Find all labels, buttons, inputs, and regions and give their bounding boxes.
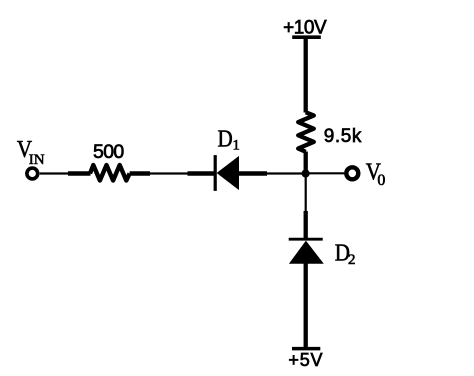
svg-text:IN: IN xyxy=(29,152,45,168)
resistor R2 9.5k zigzag xyxy=(298,112,314,152)
label V0 xyxy=(366,159,386,189)
svg-text:500: 500 xyxy=(93,141,124,163)
diode D1 cathode bar xyxy=(214,155,217,191)
wire Vin to R1 (thin) xyxy=(40,172,69,174)
svg-text:0: 0 xyxy=(377,172,385,189)
wire D1 to node (thin) xyxy=(267,172,306,174)
power rail +10V bar xyxy=(292,35,321,39)
wire R1 right lead (thick) xyxy=(130,171,150,175)
wire D1 left lead (thick) xyxy=(188,171,215,175)
label D1 xyxy=(218,126,240,153)
wire +10V to R2 (thick) xyxy=(304,37,308,113)
label D2 xyxy=(335,241,356,269)
diode D2 triangle xyxy=(289,241,324,264)
label VIN xyxy=(17,137,45,168)
svg-text:D: D xyxy=(218,126,233,152)
wire D2 top lead (thick) xyxy=(304,211,308,239)
wire D2 to +5V (thick) xyxy=(304,263,308,349)
svg-text:1: 1 xyxy=(232,137,240,153)
node Vo terminal xyxy=(346,167,358,179)
wire R1 to D1 (thin) xyxy=(150,172,189,174)
power rail +5V bar xyxy=(292,347,320,351)
junction node dot xyxy=(302,169,310,177)
wire node to D2 (thin) xyxy=(305,174,307,212)
diode D1 triangle xyxy=(217,156,239,190)
wire D1 right lead (thick) xyxy=(239,171,268,175)
svg-text:+5V: +5V xyxy=(288,350,323,370)
wire R2 bottom lead to node (thick) xyxy=(304,152,308,174)
wire node to Vo (thin) xyxy=(306,172,345,174)
diode D2 cathode bar xyxy=(289,238,323,241)
svg-text:2: 2 xyxy=(348,252,356,268)
svg-text:9.5k: 9.5k xyxy=(324,126,362,147)
wire R1 left lead (thick) xyxy=(68,171,91,175)
resistor R 500 zigzag xyxy=(90,165,130,181)
node Vin terminal xyxy=(27,168,38,179)
svg-text:+10V: +10V xyxy=(283,17,327,38)
